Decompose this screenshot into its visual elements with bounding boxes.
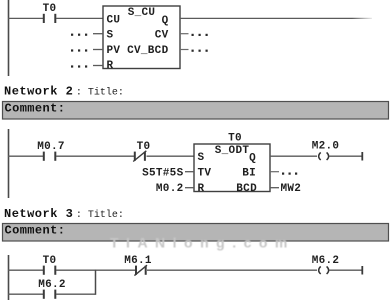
timer U2 S_ODT block [194,144,270,195]
coil M6.2 [312,255,362,274]
contact T0 (NO) network 3 [43,255,57,275]
svg-text:M2.0: M2.0 [312,141,340,153]
wire Q output to coil [270,155,317,157]
svg-text:M0.7: M0.7 [37,141,65,153]
svg-text:BCD: BCD [236,183,257,195]
svg-text:S_CU: S_CU [128,7,156,19]
network 3 right power rail tick [361,266,363,275]
node PV input stub (unconnected ...) [71,49,103,51]
comment box network 2 [3,102,389,120]
network 2 left power rail [8,129,10,198]
branch wire from rail [8,293,43,295]
wire M0.7 to T0 [56,155,134,157]
network 2 right power rail tick [361,152,363,161]
svg-text:M6.1: M6.1 [124,255,152,267]
operand M0.2 on R pin [156,183,194,195]
svg-text:Network 3: Title:: Network 3: Title: [4,207,124,221]
svg-text:Network 2: Title:: Network 2: Title: [4,85,124,99]
operand MW2 on BCD output [270,183,301,195]
svg-text:BI: BI [242,168,256,180]
junction vertical join [95,270,97,295]
svg-text:T0: T0 [43,255,57,267]
svg-text:R: R [107,60,114,72]
svg-text:TIANlong.com: TIANlong.com [110,235,295,251]
wire T0 to S pin [147,155,195,157]
svg-text:T0: T0 [228,133,242,145]
node S input stub (unconnected ...) [71,34,103,36]
network 1 left power rail [8,0,10,76]
svg-text:T0: T0 [43,3,57,15]
svg-text:Q: Q [162,15,169,27]
wire M6.1 to coil [147,269,317,271]
svg-text:Q: Q [249,153,256,165]
wire T0 to CU pin [56,17,103,19]
svg-text:Comment:: Comment: [5,102,66,116]
svg-text:PV: PV [107,45,121,57]
wire T0 to junction [56,269,135,271]
svg-text:CV_BCD: CV_BCD [127,45,169,57]
comment box network 3 [3,224,389,242]
svg-text:M6.2: M6.2 [38,279,66,291]
contact M0.7 (NO) [37,141,65,161]
svg-text:MW2: MW2 [281,183,302,195]
wire rung N1 left [8,17,43,19]
svg-text:CV: CV [155,30,169,42]
svg-text:S_ODT: S_ODT [215,145,250,157]
node CV_BCD output stub (unconnected ...) [180,50,208,52]
svg-text:Comment:: Comment: [5,224,66,238]
contact T0 (NO) [43,3,57,23]
counter U1 S_CU block [103,6,180,72]
node R input stub (unconnected ...) [71,65,103,67]
svg-text:T0: T0 [137,141,151,153]
contact M6.2 (NO) branch [38,279,66,299]
node BI output stub (unconnected ...) [270,172,297,175]
svg-text:R: R [198,183,205,195]
network 3 left power rail [8,255,10,300]
svg-text:M6.2: M6.2 [312,255,340,267]
svg-text:M0.2: M0.2 [156,183,184,195]
svg-text:CU: CU [107,15,121,27]
wire rung N2 left [8,155,43,157]
contact T0 (NC) [133,141,150,162]
contact M6.1 (NC) [124,255,152,276]
svg-text:S5T#5S: S5T#5S [142,168,184,180]
wire Q output to right [180,17,372,19]
wire rung N3 left [8,269,43,271]
value S5T#5S on TV pin [142,168,194,180]
coil M2.0 [312,141,362,161]
svg-text:S: S [198,152,205,164]
svg-text:S: S [107,30,114,42]
node CV output stub (unconnected ...) [180,34,208,36]
wire M6.2 to junction [56,293,96,295]
svg-text:TV: TV [198,168,212,180]
